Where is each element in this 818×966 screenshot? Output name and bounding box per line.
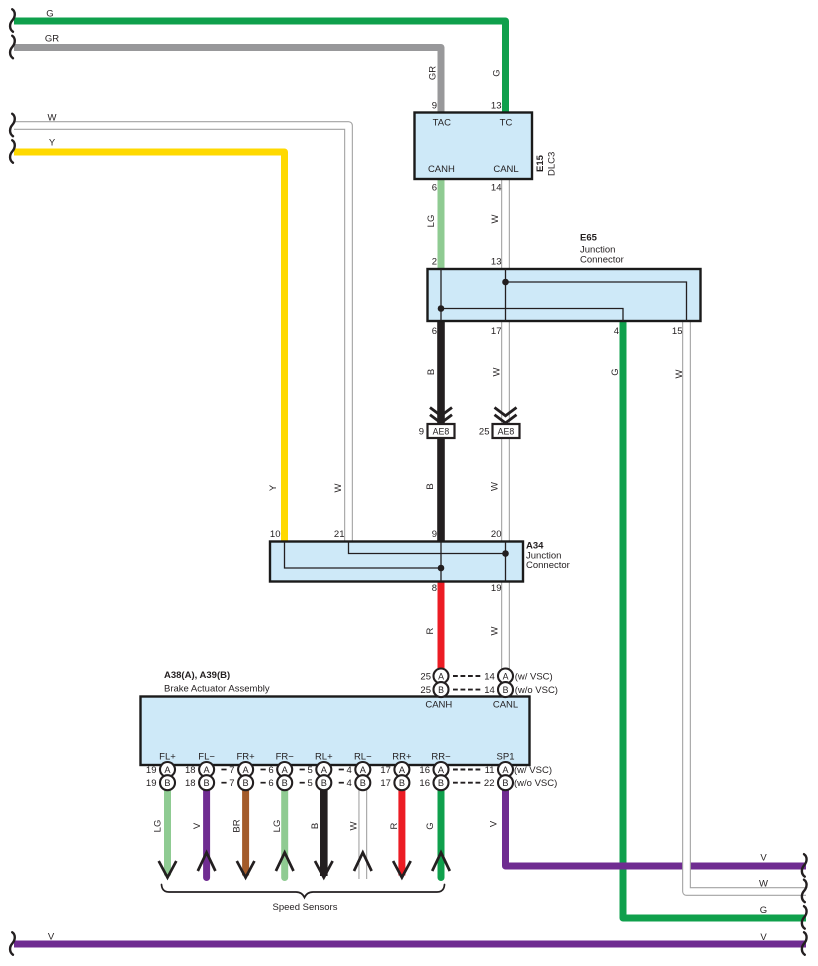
wire G (brake actuator RR- speed sensor) xyxy=(438,765,445,878)
svg-text:B: B xyxy=(164,778,170,788)
svg-text:V: V xyxy=(48,932,55,943)
svg-text:11: 11 xyxy=(485,765,495,776)
label E65 Junction Connector xyxy=(580,233,624,266)
pin row A below brake actuator xyxy=(146,765,552,776)
svg-text:8: 8 xyxy=(432,583,437,594)
arrow down RR+ sensor xyxy=(393,861,411,878)
wire W (from left break to A34 pin 21) xyxy=(14,126,349,542)
svg-text:A: A xyxy=(164,765,171,775)
svg-text:GR: GR xyxy=(428,66,439,80)
svg-text:FR−: FR− xyxy=(276,752,295,763)
svg-text:V: V xyxy=(760,932,767,943)
svg-text:18: 18 xyxy=(185,765,196,776)
svg-text:(w/ VSC): (w/ VSC) xyxy=(514,765,552,776)
svg-text:B: B xyxy=(503,685,509,695)
svg-text:6: 6 xyxy=(432,183,437,194)
svg-text:4: 4 xyxy=(347,765,352,776)
svg-text:6: 6 xyxy=(268,778,273,789)
wire LG (E15 CANH pin 6 to E65 pin 2) xyxy=(438,179,445,269)
svg-text:Y: Y xyxy=(49,138,56,149)
arrow up FR- sensor xyxy=(276,853,294,872)
svg-text:B: B xyxy=(438,685,444,695)
svg-text:AE8: AE8 xyxy=(433,426,450,436)
svg-text:W: W xyxy=(674,369,685,378)
connector E15 (DLC3) box xyxy=(415,113,533,180)
svg-text:A: A xyxy=(282,765,289,775)
svg-text:14: 14 xyxy=(484,672,495,683)
svg-text:V: V xyxy=(192,822,203,829)
wire V (brake actuator SP1 to right break) xyxy=(506,765,807,866)
svg-text:14: 14 xyxy=(484,685,495,696)
svg-text:B: B xyxy=(282,778,288,788)
svg-text:RR−: RR− xyxy=(431,752,451,763)
pin circles A row brake actuator xyxy=(160,762,513,777)
svg-text:AE8: AE8 xyxy=(498,426,515,436)
wire B (brake actuator RL+ speed sensor) xyxy=(320,765,328,876)
svg-text:A: A xyxy=(243,765,250,775)
wire E65 internal bus xyxy=(441,269,687,321)
svg-text:17: 17 xyxy=(380,765,391,776)
svg-text:Connector: Connector xyxy=(580,255,624,266)
connector AE8 pin 9 (chevrons and box) xyxy=(419,408,455,439)
svg-text:B: B xyxy=(438,778,444,788)
svg-text:16: 16 xyxy=(419,778,430,789)
svg-text:Connector: Connector xyxy=(526,560,570,571)
svg-text:25: 25 xyxy=(479,427,490,438)
svg-text:RL−: RL− xyxy=(354,752,372,763)
svg-text:14: 14 xyxy=(491,183,502,194)
svg-text:19: 19 xyxy=(491,583,502,594)
svg-text:B: B xyxy=(502,778,508,788)
svg-text:DLC3: DLC3 xyxy=(547,152,558,176)
svg-text:7: 7 xyxy=(229,778,234,789)
svg-text:17: 17 xyxy=(491,326,502,337)
svg-text:25: 25 xyxy=(420,672,431,683)
node junction dot A34 lower xyxy=(438,565,445,572)
break symbol GR left xyxy=(10,36,15,58)
wire B (E65 pin 6 to A34 pin 9, through AE8) xyxy=(437,321,445,542)
svg-text:A: A xyxy=(360,765,367,775)
svg-text:9: 9 xyxy=(432,101,437,112)
svg-text:25: 25 xyxy=(420,685,431,696)
svg-text:A: A xyxy=(438,765,445,775)
svg-text:V: V xyxy=(760,853,767,864)
svg-text:13: 13 xyxy=(491,101,502,112)
node junction dot E65 left xyxy=(438,305,445,312)
pin letters B row xyxy=(164,778,508,788)
svg-text:19: 19 xyxy=(146,765,157,776)
break symbol W right xyxy=(802,880,807,902)
svg-text:(w/o VSC): (w/o VSC) xyxy=(515,685,558,696)
connector A34 junction box xyxy=(270,542,523,582)
svg-text:A: A xyxy=(503,671,509,681)
wire W (E15 CANL pin 14 to E65 pin 13) xyxy=(501,179,510,269)
wire LG (brake actuator FL+ speed sensor) xyxy=(164,765,171,876)
svg-text:BR: BR xyxy=(232,819,243,832)
label A34 Junction Connector xyxy=(526,541,570,572)
svg-text:Speed Sensors: Speed Sensors xyxy=(273,902,338,913)
svg-text:Brake Actuator Assembly: Brake Actuator Assembly xyxy=(164,684,270,695)
svg-text:(w/ VSC): (w/ VSC) xyxy=(515,672,553,683)
pin row B below brake actuator xyxy=(146,778,557,789)
arrow up FL- sensor xyxy=(198,853,216,872)
svg-text:A: A xyxy=(438,671,444,681)
svg-text:10: 10 xyxy=(270,529,281,540)
arrow down FR+ sensor xyxy=(237,861,255,878)
svg-text:19: 19 xyxy=(146,778,157,789)
svg-text:FR+: FR+ xyxy=(236,752,255,763)
wire W (E65 pin 15 to right break) xyxy=(687,321,807,892)
wire Y (from left break to A34 pin 10) xyxy=(14,152,285,542)
brace speed sensors xyxy=(162,885,445,898)
svg-text:21: 21 xyxy=(334,529,345,540)
wire R (brake actuator RR+ speed sensor) xyxy=(398,765,405,876)
arrow down RL+ sensor (filled) xyxy=(315,861,333,878)
wire GR (from left break to E15 pin 9) xyxy=(14,48,441,115)
svg-text:E15: E15 xyxy=(535,154,546,172)
svg-text:RR+: RR+ xyxy=(392,752,412,763)
svg-text:G: G xyxy=(492,69,503,76)
wire G (E65 pin 4 to right break) xyxy=(623,321,806,918)
svg-text:B: B xyxy=(399,778,405,788)
svg-text:9: 9 xyxy=(419,427,424,438)
svg-text:CANL: CANL xyxy=(493,164,518,175)
wire BR (brake actuator FR+ speed sensor) xyxy=(242,765,249,876)
svg-text:LG: LG xyxy=(153,820,164,833)
break symbol W left xyxy=(10,114,15,136)
svg-text:TC: TC xyxy=(500,117,513,128)
svg-text:6: 6 xyxy=(268,765,273,776)
wire A34 internal bus xyxy=(285,542,506,582)
svg-text:CANH: CANH xyxy=(425,700,452,711)
svg-text:W: W xyxy=(333,483,344,492)
svg-text:B: B xyxy=(204,778,210,788)
svg-text:A: A xyxy=(502,765,509,775)
svg-text:(w/o VSC): (w/o VSC) xyxy=(514,778,557,789)
wire W (brake actuator RL- speed sensor) xyxy=(358,765,367,879)
svg-text:5: 5 xyxy=(308,778,313,789)
connector AE8 pin 25 (chevrons and box) xyxy=(479,408,520,439)
connector A38/A39 brake actuator assembly box xyxy=(141,697,530,766)
svg-text:B: B xyxy=(310,823,321,829)
svg-text:4: 4 xyxy=(347,778,352,789)
svg-text:W: W xyxy=(490,626,501,635)
svg-text:W: W xyxy=(492,367,503,376)
break symbol Y left xyxy=(10,140,15,162)
svg-text:LG: LG xyxy=(272,820,283,833)
pin letters A row xyxy=(164,765,509,775)
svg-text:W: W xyxy=(759,879,768,890)
wire W (E65 pin 17 to A34 pin 20, through AE8) xyxy=(501,321,510,542)
svg-text:13: 13 xyxy=(491,257,502,268)
svg-text:A: A xyxy=(204,765,211,775)
wire R (A34 pin 8 to brake actuator CANH) xyxy=(438,581,445,671)
break symbol V bottom-right xyxy=(802,932,807,954)
svg-text:17: 17 xyxy=(380,778,391,789)
svg-text:4: 4 xyxy=(614,326,619,337)
break symbol G right xyxy=(802,906,807,928)
arrow up RL- sensor xyxy=(354,853,372,872)
svg-text:FL−: FL− xyxy=(198,752,215,763)
svg-text:W: W xyxy=(490,214,501,223)
svg-text:FL+: FL+ xyxy=(159,752,176,763)
pin circles B row brake actuator xyxy=(160,775,513,790)
svg-text:B: B xyxy=(321,778,327,788)
svg-text:G: G xyxy=(610,368,621,375)
svg-text:15: 15 xyxy=(672,326,683,337)
svg-text:LG: LG xyxy=(426,215,437,228)
connector E65 junction box xyxy=(428,269,701,321)
svg-text:RL+: RL+ xyxy=(315,752,333,763)
break symbol V bottom-left xyxy=(10,932,15,954)
svg-text:R: R xyxy=(389,822,400,829)
svg-text:7: 7 xyxy=(229,765,234,776)
svg-text:SP1: SP1 xyxy=(497,752,515,763)
label A38(A), A39(B) Brake Actuator Assembly xyxy=(164,670,270,695)
svg-text:9: 9 xyxy=(432,529,437,540)
svg-text:2: 2 xyxy=(432,257,437,268)
svg-text:B: B xyxy=(360,778,366,788)
svg-text:A: A xyxy=(399,765,406,775)
break symbol G left xyxy=(10,9,15,31)
node junction dot E65 right xyxy=(502,279,509,286)
svg-text:CANH: CANH xyxy=(428,164,455,175)
svg-text:5: 5 xyxy=(308,765,313,776)
wire G (top, from left break to E15 pin 13) xyxy=(14,21,506,114)
svg-text:16: 16 xyxy=(419,765,430,776)
svg-text:G: G xyxy=(760,905,767,916)
arrow down FL+ sensor xyxy=(159,861,177,878)
svg-text:B: B xyxy=(426,369,437,375)
svg-text:CANL: CANL xyxy=(493,700,518,711)
svg-text:GR: GR xyxy=(45,34,59,45)
svg-text:20: 20 xyxy=(491,529,502,540)
svg-text:W: W xyxy=(349,821,360,830)
svg-text:18: 18 xyxy=(185,778,196,789)
svg-text:6: 6 xyxy=(432,326,437,337)
svg-text:22: 22 xyxy=(484,778,495,789)
svg-text:G: G xyxy=(46,9,53,20)
svg-text:A: A xyxy=(321,765,328,775)
wire V (bottom, left break to right break) xyxy=(14,941,806,948)
node junction dot A34 upper xyxy=(502,550,509,557)
svg-text:G: G xyxy=(425,822,436,829)
wire W (A34 pin 19 to brake actuator CANL) xyxy=(501,581,510,671)
svg-text:W: W xyxy=(48,113,57,124)
svg-text:A38(A), A39(B): A38(A), A39(B) xyxy=(164,670,230,681)
svg-text:R: R xyxy=(425,627,436,634)
arrow up RR- sensor xyxy=(432,853,450,872)
svg-text:B: B xyxy=(243,778,249,788)
svg-text:Y: Y xyxy=(268,484,279,491)
wire LG (brake actuator FR- speed sensor) xyxy=(281,765,288,878)
svg-text:W: W xyxy=(490,482,501,491)
wire V (brake actuator FL- speed sensor) xyxy=(203,765,210,878)
svg-text:TAC: TAC xyxy=(433,117,451,128)
label E15 DLC3 xyxy=(535,152,558,176)
svg-text:E65: E65 xyxy=(580,233,598,244)
svg-text:B: B xyxy=(425,483,436,489)
svg-text:V: V xyxy=(488,820,499,827)
break symbol V right xyxy=(802,854,807,876)
